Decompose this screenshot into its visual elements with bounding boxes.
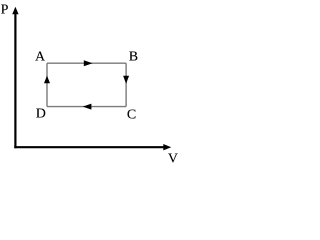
arrowhead D to A [44, 76, 50, 84]
wire B-C (right edge) [125, 63, 127, 106]
V axis arrowhead [163, 144, 171, 150]
P axis vertical line [14, 12, 16, 149]
wire D-A (left edge) [46, 63, 48, 106]
svg-text:A: A [35, 50, 46, 65]
arrowhead C to D [83, 104, 92, 110]
svg-text:C: C [127, 108, 136, 123]
svg-text:B: B [129, 50, 138, 65]
wire A-B (top edge) [47, 62, 126, 64]
wire C-D (bottom edge) [47, 106, 126, 108]
arrowhead A to B [84, 60, 93, 66]
P axis arrowhead [12, 7, 18, 14]
svg-text:P: P [1, 3, 9, 18]
arrowhead B to C [123, 76, 129, 84]
V axis horizontal line [14, 146, 164, 148]
svg-text:V: V [168, 151, 178, 166]
svg-text:D: D [36, 107, 46, 122]
